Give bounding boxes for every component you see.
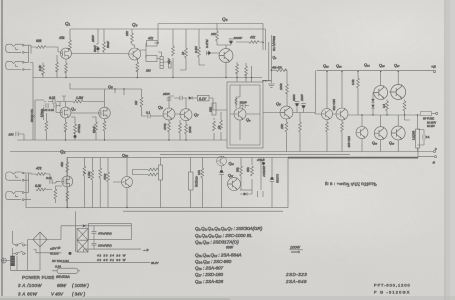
svg-text:+B: +B: [431, 65, 436, 69]
svg-text:33k: 33k: [209, 107, 213, 112]
svg-text:25k: 25k: [236, 167, 240, 172]
rail second y89: [70, 83, 142, 89]
svg-text:65W: 65W: [57, 283, 67, 288]
module box outer: [227, 82, 263, 148]
svg-text:3 A 60W: 3 A 60W: [18, 292, 38, 297]
svg-text:470kΩ: 470kΩ: [77, 123, 81, 133]
capacitor C 500P: [243, 103, 245, 108]
svg-text:Q₅: Q₅: [108, 84, 113, 89]
svg-text:6.8k: 6.8k: [35, 184, 41, 188]
wire Q9 collector bus: [292, 71, 315, 113]
capacitor C 100uF blob: [220, 170, 223, 173]
channel box: [67, 158, 288, 208]
resistor R 5.6k: [299, 113, 301, 152]
wire box to module: [209, 98, 227, 110]
resistor column x199: [199, 29, 205, 65]
svg-text:P G -3120GX: P G -3120GX: [374, 290, 411, 295]
svg-text:Q₁₇: Q₁₇: [394, 64, 400, 68]
rail y78 extension wire: [263, 80, 271, 82]
svg-text:47k: 47k: [148, 37, 154, 41]
svg-text:PFT-600,1200: PFT-600,1200: [374, 283, 411, 288]
capacitor C 0.47 blob: [208, 52, 211, 55]
resistor col x92: [91, 158, 93, 208]
resistor box small: [159, 165, 163, 180]
resistor R 15k below Q9: [286, 119, 288, 152]
svg-text:( 34V ): ( 34V ): [72, 292, 86, 297]
svg-text:500P: 500P: [240, 101, 247, 105]
svg-text:SV 100 0.3A: SV 100 0.3A: [52, 259, 69, 263]
wire left col: [32, 78, 34, 141]
transistor Q8: [219, 49, 233, 63]
mains plug terminal: [1, 258, 6, 263]
wire Q1 drain stub: [66, 29, 70, 49]
diode lower: [244, 192, 247, 195]
resistor column x173: [172, 29, 174, 78]
svg-text:Q₁₆: Q₁₆: [372, 141, 378, 145]
capacitor pair C 0.01: [46, 103, 48, 108]
transistor Q12 upper output: [374, 86, 388, 100]
node rail R2 (top): [158, 24, 263, 51]
svg-text:( 100W ): ( 100W ): [72, 283, 89, 288]
resistor R 2.2k column: [42, 63, 44, 78]
svg-text:47k: 47k: [36, 167, 42, 171]
resistor R x55: [55, 186, 62, 203]
transistor Q2 (FET): [62, 176, 73, 187]
svg-text:50kΩ(A) VR: 50kΩ(A) VR: [272, 36, 276, 51]
terminal +B: [433, 70, 435, 72]
svg-text:40.100: 40.100: [50, 252, 59, 256]
jack J3: [6, 172, 24, 181]
svg-text:2.2M: 2.2M: [194, 46, 198, 54]
rectifier bridge: [33, 232, 47, 247]
svg-text:Q₁₁,Q₁₃,Q₁₂ : 2SA-564A: Q₁₁,Q₁₃,Q₁₂ : 2SA-564A: [195, 252, 241, 257]
resistor Q6 emitter: [168, 119, 170, 140]
resistor R 1M vertical: [142, 89, 147, 116]
svg-text:0.47M: 0.47M: [205, 39, 209, 48]
svg-text:1000P: 1000P: [234, 36, 243, 40]
svg-text:470uF(6V): 470uF(6V): [98, 232, 112, 236]
wire Q2 drain: [66, 158, 68, 208]
svg-text:100: 100: [197, 170, 201, 175]
svg-text:2.2(1W): 2.2(1W): [412, 131, 416, 140]
wires Q10: [113, 158, 127, 208]
resistor 2.2 ohm output box: [417, 115, 419, 129]
bridge wires: [11, 226, 76, 271]
capacitor blobs lower: [271, 177, 274, 180]
svg-text:3 A /100W: 3 A /100W: [18, 283, 42, 288]
svg-text:22k: 22k: [210, 32, 216, 36]
resistor stub box feed 1: [236, 62, 238, 82]
resistor box 470 1W: [189, 172, 194, 190]
svg-text:45k: 45k: [60, 162, 64, 167]
svg-text:100uF(6V): 100uF(6V): [98, 244, 112, 248]
svg-text:Q₁₀: Q₁₀: [122, 153, 128, 158]
transformer secondary wires: [25, 245, 28, 266]
svg-text:Q₁₄: Q₁₄: [364, 63, 370, 67]
resistor column x186: [180, 29, 186, 70]
capacitor output: [423, 135, 425, 140]
transistor Q14 lower output: [356, 127, 368, 139]
svg-text:43 35 31 36 W: 43 35 31 36 W: [97, 258, 126, 262]
wires upper outputs: [373, 72, 398, 99]
resistor Q2 drain: [66, 162, 69, 172]
transistor Q4 (FET): [60, 107, 71, 118]
svg-text:470k: 470k: [163, 123, 167, 130]
left paper border line: [1, 0, 3, 296]
rail mid y77.5: [33, 77, 262, 79]
svg-text:100W: 100W: [290, 246, 300, 250]
svg-text:Q₂: Q₂: [60, 149, 66, 154]
resistor R x180: [179, 120, 181, 140]
svg-text:0.1V: 0.1V: [199, 97, 207, 101]
diode D1: [371, 99, 374, 102]
resistor box right cluster: [212, 103, 216, 115]
wire Q8 collector chain: [217, 24, 226, 49]
capacitor C 250P: [169, 96, 174, 108]
capacitor C 0.01 lower: [50, 179, 52, 184]
transistor Q10 pre-driver: [321, 108, 332, 119]
resistor R x221: [220, 112, 222, 140]
resistor Q3 emitter: [136, 62, 139, 72]
svg-text:0.5: 0.5: [382, 104, 386, 108]
long line 35V: [61, 261, 150, 263]
svg-text:3A 25V: 3A 25V: [427, 125, 435, 128]
transistor Q16 lower output: [391, 126, 405, 140]
power switch pole 2: [16, 253, 18, 255]
svg-text:220/10V: 220/10V: [262, 166, 266, 177]
svg-text:SP FUSE: SP FUSE: [423, 117, 434, 121]
diode chain: [189, 96, 192, 99]
transistor Q10 lower: [121, 176, 132, 187]
transformer core: [10, 256, 15, 266]
svg-text:45k: 45k: [59, 36, 65, 40]
resistor Q11 emitter: [341, 120, 343, 152]
svg-text:1k: 1k: [181, 51, 185, 55]
resistor box 2: [146, 56, 157, 62]
svg-text:1M: 1M: [134, 100, 138, 105]
fuse SP box: [421, 111, 432, 116]
svg-text:35.4V: 35.4V: [151, 261, 159, 265]
svg-text:Q₁₇: Q₁₇: [228, 174, 234, 178]
bias diode cross 2: [77, 240, 88, 252]
svg-text:25k: 25k: [246, 167, 250, 172]
svg-text:22k: 22k: [125, 31, 129, 37]
jack wires lower: [24, 173, 61, 200]
transistor Q15 lower output: [374, 127, 387, 140]
svg-text:Q₆: Q₆: [158, 105, 163, 110]
resistor R 1M column: [56, 55, 58, 78]
capacitor C 100P: [302, 105, 305, 108]
resistor Q1 source: [65, 63, 68, 73]
resistor col x84: [83, 158, 85, 208]
svg-text:Q₉: Q₉: [246, 118, 251, 122]
svg-text:1k: 1k: [217, 125, 221, 129]
svg-text:0.3A: 0.3A: [55, 265, 61, 269]
svg-text:Q₁,Q₂,Q₄,Q₅,Q₆,Q₇ : 2SK30A(GR): Q₁,Q₂,Q₄,Q₅,Q₆,Q₇ : 2SK30A(GR): [195, 226, 263, 231]
wire bias left drop: [75, 211, 77, 252]
wire stubs rail y89: [115, 89, 124, 95]
resistor R 22k Q8: [216, 31, 219, 41]
fuse pill: [57, 268, 78, 273]
svg-text:100k: 100k: [279, 83, 283, 90]
bottom edge shadow: [0, 296, 455, 300]
coupling chain caps: [174, 97, 187, 99]
svg-text:50uF: 50uF: [92, 126, 96, 133]
svg-text:Q₁₆ : 2SA-607: Q₁₆ : 2SA-607: [195, 266, 223, 271]
resistor emitter 0.5 ohm a: [386, 100, 388, 102]
resistor R 25k lower2: [240, 158, 242, 167]
resistor R 46 column: [45, 113, 47, 121]
resistor R 470k: [71, 117, 75, 140]
resistor Q2 source: [66, 191, 69, 201]
wire -B thick bar: [288, 157, 418, 159]
capacitor C 3300: [296, 103, 299, 106]
svg-text:3300: 3300: [292, 94, 296, 101]
rail bottom upper channel y140: [17, 139, 227, 141]
svg-text:→-B: →-B: [143, 248, 149, 252]
transistor QB bias: [217, 156, 227, 166]
svg-text:2SA-649: 2SA-649: [285, 279, 307, 284]
wire jack ground drop: [30, 63, 33, 78]
resistor Q5 source: [103, 121, 106, 131]
svg-text:0.1: 0.1: [146, 111, 151, 115]
wire Q8 emitter: [225, 62, 227, 78]
wire Q1 source: [65, 59, 67, 78]
resistor R 47k feedback: [236, 41, 263, 43]
resistor R 100: [201, 158, 203, 208]
svg-text:Q₁₁,Q₁₂ : 2SD317A(O): Q₁₁,Q₁₂ : 2SD317A(O): [195, 239, 239, 244]
bias diode cross 1: [77, 228, 88, 240]
coupling cap C 50uF: [96, 29, 98, 53]
module wires: [230, 85, 260, 140]
jack J4: [6, 192, 24, 201]
resistor R 47k lower: [36, 173, 46, 176]
svg-text:Ėi B : +œťlɪų̲ ŋʕɪ̺ĩʆ ťɪʔ̺ġťl: Ėi B : +œťlɪų̲ ŋʕɪ̺ĩʆ ťɪʔ̺ġťlʔɮ,: [325, 181, 377, 186]
wire long zero rail: [10, 151, 433, 153]
svg-text:Q₁₇ : 2SD-180: Q₁₇ : 2SD-180: [195, 272, 224, 277]
capacitor 100uF(6V): [92, 240, 97, 249]
svg-text:50uF: 50uF: [93, 45, 97, 52]
wire lower bus: [240, 189, 252, 191]
transistor Q13 upper output: [391, 85, 406, 100]
resistor pair 22: [133, 170, 159, 175]
resistor Q10 emitter: [326, 120, 328, 152]
svg-text:470k: 470k: [103, 173, 107, 180]
wires lower outputs: [362, 115, 410, 152]
wire Q6-Q7 base link: [163, 113, 181, 115]
volume VR line: [269, 35, 272, 83]
svg-text:47k: 47k: [250, 36, 256, 40]
wire module to Q9: [263, 112, 280, 114]
svg-text:250: 250: [8, 133, 14, 137]
resistor R col x96: [92, 117, 96, 140]
svg-text:Q₁₈ : 2SA-626: Q₁₈ : 2SA-626: [195, 279, 224, 284]
svg-text:Q₃: Q₃: [132, 22, 138, 27]
small box caps: [88, 224, 131, 240]
resistor Q7 emitter: [185, 120, 187, 140]
diode D2: [371, 105, 374, 108]
svg-text:65V/03A: 65V/03A: [56, 275, 70, 279]
wire coupling: [140, 43, 169, 62]
capacitor C 1000P: [230, 41, 233, 44]
wire Q4: [56, 102, 66, 141]
transistor Q9 driver: [280, 106, 293, 119]
svg-text:POWER FUSE: POWER FUSE: [22, 275, 55, 280]
svg-text:100P: 100P: [300, 94, 304, 101]
resistor stub box feed 3: [251, 66, 253, 82]
resistor R 3.3k: [357, 72, 359, 116]
svg-text:50uF: 50uF: [106, 41, 110, 48]
resistor box vertical: [160, 57, 163, 69]
svg-text:1.5M: 1.5M: [76, 96, 83, 100]
inner border line: [123, 210, 283, 212]
svg-text:Q₁₅: Q₁₅: [379, 64, 385, 68]
transistor Q1 (FET): [61, 48, 72, 59]
module box inner: [230, 85, 260, 145]
wire Q7 collector: [185, 98, 187, 108]
svg-text:-B: -B: [432, 161, 435, 165]
svg-text:V.R 500kB: V.R 500kB: [30, 109, 34, 122]
svg-text:Q₁₈: Q₁₈: [389, 141, 395, 145]
svg-text:250P: 250P: [91, 35, 95, 43]
capacitor on box top 470uF: [262, 162, 265, 165]
resistor R 1.5M: [73, 100, 83, 103]
wire to Q8 base: [211, 52, 220, 54]
svg-text:0.1: 0.1: [426, 135, 430, 139]
capacitor C 0.1: [148, 114, 150, 119]
jack J2: [6, 61, 24, 70]
wire bias bottom: [84, 249, 141, 252]
svg-text:2SC-756: 2SC-756: [332, 99, 336, 111]
svg-text:Q₁₂: Q₁₂: [323, 64, 329, 68]
resistor pair bottom lower: [258, 191, 264, 197]
svg-text:45k 47k: 45k 47k: [272, 65, 282, 69]
svg-text:Q₁₃: Q₁₃: [336, 64, 342, 68]
svg-text:1.5M: 1.5M: [87, 171, 91, 178]
diode bias feed: [83, 224, 86, 227]
wire fuse feed: [34, 250, 62, 253]
wire -B terminal: [418, 156, 434, 158]
svg-text:15k: 15k: [280, 124, 284, 129]
resistor R x214: [213, 118, 215, 140]
resistor R 100k above Q9: [271, 70, 287, 106]
resistor R 22k: [132, 29, 135, 48]
node rail R1: [70, 24, 266, 51]
resistor Q4 source: [64, 122, 67, 132]
resistor R 6.8k: [36, 188, 46, 191]
capacitor 470uF(6V): [92, 226, 97, 240]
svg-text:Q₄: Q₄: [71, 107, 76, 111]
rail bottom lower extension: [26, 174, 67, 208]
transistor Q7: [180, 109, 192, 121]
svg-text:0.0033: 0.0033: [276, 174, 280, 183]
wire caps: [43, 96, 105, 107]
svg-text:Q₈: Q₈: [222, 17, 228, 22]
svg-text:2SD-323: 2SD-323: [285, 272, 307, 277]
svg-text:470(1W): 470(1W): [195, 176, 199, 187]
wires pre-driver: [315, 72, 342, 115]
svg-text:3.3k: 3.3k: [351, 79, 355, 85]
resistor R 68k: [36, 46, 46, 49]
volume VR2: [35, 100, 44, 140]
transistor Q9a (in module): [234, 108, 246, 120]
resistor R 25k lower: [251, 158, 253, 195]
transistor Q18 lower driver: [228, 178, 241, 191]
svg-text:Q₁₄,Q₁₅ : 2SC-960: Q₁₄,Q₁₅ : 2SC-960: [195, 259, 232, 264]
resistor stub box feed 2: [245, 63, 247, 82]
resistor box 0.1V: [198, 95, 210, 101]
resistor col x108: [107, 158, 109, 208]
rail +B: [317, 70, 434, 72]
svg-text:2SD-180: 2SD-180: [347, 136, 351, 148]
svg-text:Q₃,Q₈,Q₉,Q₁₀ : 2SC-1000 BL: Q₃,Q₈,Q₉,Q₁₀ : 2SC-1000 BL: [195, 233, 253, 238]
svg-text:Q₉: Q₉: [276, 101, 281, 106]
wire Q3 emitter: [136, 58, 138, 77]
wire mid line 2: [160, 153, 350, 155]
svg-text:2.2k: 2.2k: [38, 65, 42, 72]
wire bias top: [76, 225, 132, 227]
wire Q5: [71, 89, 105, 140]
wire jack bus: [24, 45, 60, 69]
svg-text:250P: 250P: [162, 92, 170, 96]
right fold band: [446, 0, 455, 300]
resistor R mid: [103, 29, 105, 53]
svg-text:220: 220: [145, 69, 151, 73]
svg-text:Q₁₆: Q₁₆: [229, 162, 235, 166]
ground: [268, 84, 275, 87]
power switch pole 1: [16, 244, 18, 246]
svg-text:Q₇: Q₇: [194, 112, 199, 117]
transistor Q3: [129, 48, 141, 60]
resistor R 45k: [69, 40, 72, 50]
transistor Q11 pre-driver: [336, 108, 348, 120]
wire Q1-Q3: [72, 52, 129, 55]
output node line: [348, 114, 420, 116]
wire mains drop: [12, 231, 14, 244]
svg-text:V 40V: V 40V: [51, 292, 64, 297]
svg-text:68k: 68k: [36, 39, 42, 43]
resistor R 47k box: [147, 41, 158, 47]
transistor Q6: [163, 108, 175, 120]
resistor col x100: [99, 158, 101, 208]
svg-text:0.02: 0.02: [49, 96, 55, 100]
resistor emitter 0.5 ohm b: [404, 100, 406, 102]
svg-text:60W: 60W: [226, 245, 234, 249]
svg-text:0.01: 0.01: [46, 176, 52, 180]
jack J1: [6, 44, 24, 53]
transistor Q5 (FET): [99, 107, 111, 119]
svg-text:Q₁: Q₁: [65, 21, 71, 26]
svg-text:100k: 100k: [188, 126, 192, 133]
